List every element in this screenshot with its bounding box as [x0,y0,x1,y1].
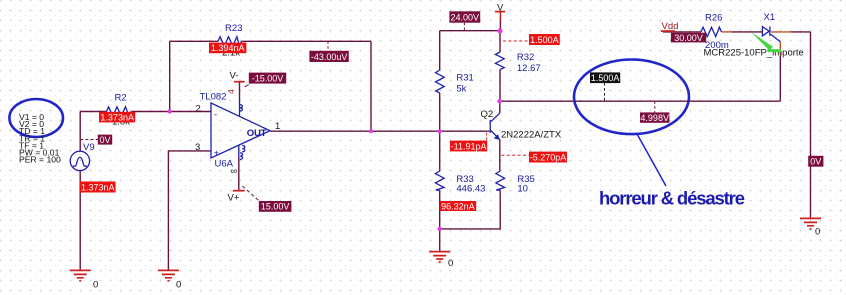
svg-text:3: 3 [195,142,200,153]
svg-text:4: 4 [226,89,236,94]
svg-text:Vdd: Vdd [662,21,679,32]
dashed connector -43.00uV [327,41,329,51]
ground G4 [800,218,821,228]
annotation leader line [637,133,667,186]
label box -11.91pA [450,141,487,152]
wire op-amp output to Q2 base [271,130,490,132]
svg-text:446.43: 446.43 [456,183,485,194]
svg-text:-11.91pA: -11.91pA [451,141,487,151]
svg-text:R26: R26 [705,12,722,23]
label box 1.500A red [529,34,560,45]
wire top feedback horizontal [170,40,371,42]
svg-text:15.00V: 15.00V [261,202,290,212]
wire op-amp V+ power stub [238,157,240,190]
wire input horizontal to R2 [80,111,211,113]
SCR X1 [762,27,780,42]
svg-text:4.998V: 4.998V [640,113,669,123]
dashed connector 24.00V [463,23,465,31]
svg-text:V-: V- [230,71,239,82]
wire R26 to X1 anode [722,31,733,33]
wire pin3 to ground [168,151,211,270]
wire emitter / R35 column [440,140,501,229]
svg-text:Q2: Q2 [481,109,494,120]
svg-text:MCR225-10FP_importe: MCR225-10FP_importe [704,47,804,58]
annotation ellipse right [574,60,689,135]
wire V node horizontal [440,30,500,32]
svg-text:PER = 100: PER = 100 [19,155,61,165]
wire op-amp V- power stub [239,82,241,99]
resistor R35 [496,171,505,190]
svg-text:1.500A: 1.500A [530,35,559,45]
resistor R33 [435,171,444,190]
dashed connector -5.270pA [501,154,529,156]
svg-text:30.00V: 30.00V [674,33,703,43]
junction node feedback/output [369,129,373,133]
svg-text:R23: R23 [225,23,242,34]
svg-text:R2: R2 [115,93,127,104]
resistor R23 [218,37,242,46]
annotation ellipse left [9,99,63,137]
svg-text:0: 0 [815,227,820,238]
wire V9 bottom lead to ground [79,171,81,270]
label box -5.270pA [529,152,567,163]
svg-text:1: 1 [275,121,280,132]
ground G3 [429,252,450,262]
svg-text:12.67: 12.67 [517,63,541,74]
junction node collector [497,99,501,103]
svg-text:96.32nA: 96.32nA [441,201,475,211]
svg-text:0: 0 [448,258,453,269]
junction node emitter bottom [438,227,442,231]
wire right column to ground [810,32,812,218]
label box -43.00uV [309,51,348,62]
wire collector to SCR gate [500,100,781,102]
label box 15.00V [259,201,292,212]
svg-text:1.373nA: 1.373nA [81,182,115,192]
wire SCR gate vertical [779,42,781,56]
label box 4.998V [640,112,669,122]
pin squiggle marks [240,105,243,112]
svg-text:X1: X1 [764,12,776,23]
resistor R32 [495,52,504,70]
resistor R26 [701,27,722,36]
svg-text:2N2222A/ZTX: 2N2222A/ZTX [501,130,562,141]
label box -15.00V [249,73,286,84]
dashed connector 1.500A red [503,40,529,42]
svg-text:R31: R31 [456,73,473,84]
svg-text:-: - [214,110,217,121]
label box 1.394nA [209,43,246,54]
svg-text:∞: ∞ [231,166,238,177]
wire X1 cathode to right column [771,31,791,33]
svg-text:0: 0 [93,280,98,291]
ground G1 [70,270,91,280]
wire R31 column [439,31,441,251]
ground G2 [158,270,179,280]
svg-text:-5.270pA: -5.270pA [530,152,567,162]
label box 24.00V [449,11,480,22]
label box 0V left [98,135,112,145]
label box 1.500A black [590,72,620,83]
svg-text:-43.00uV: -43.00uV [311,52,348,62]
wire R32 column [499,31,501,114]
transistor Q2 [489,120,491,133]
svg-text:V9: V9 [83,142,95,153]
dashed connector -11.91pA [486,133,488,141]
V+ bar [233,190,245,192]
green arrow annotation [751,32,773,51]
junction node op-amp input [168,109,172,113]
resistor R2 [107,107,132,116]
svg-text:OUT: OUT [247,128,267,139]
label box 1.373nA (R2) [99,112,135,123]
wire Vdd to R26 [663,31,701,33]
label box 0V right [808,156,823,167]
svg-text:1.373nA: 1.373nA [100,112,134,122]
svg-text:0V: 0V [99,135,110,145]
svg-text:1.500A: 1.500A [591,73,620,83]
svg-text:5k: 5k [456,84,466,95]
dashed connector -15.00V [245,85,249,87]
source parameter text [19,112,61,165]
wire feedback vertical left [169,41,171,111]
voltage source V9 [70,151,89,170]
svg-text:horreur & désastre: horreur & désastre [599,188,745,209]
label box 1.373nA (source) [80,182,116,193]
svg-text:+: + [214,148,220,159]
resistor R31 [436,70,445,93]
svg-text:-15.00V: -15.00V [252,74,284,84]
op-amp U6A [211,103,270,158]
svg-text:0: 0 [176,280,181,291]
svg-text:R32: R32 [517,52,534,63]
svg-text:TL082: TL082 [200,92,227,103]
label box 96.32nA [440,201,477,211]
wire V top stub [499,12,501,21]
dashed connector 0V left [80,139,98,141]
junction node base/divider [438,129,442,133]
op-amp power pin stubs [238,99,241,157]
svg-text:V+: V+ [228,193,240,204]
svg-text:1.394nA: 1.394nA [211,43,245,53]
dashed connector 15.00V [242,186,259,201]
V- bar [234,81,245,83]
svg-text:10: 10 [517,183,528,194]
dashed connector 4.998V [654,101,656,112]
wire feedback vertical right [370,41,372,131]
junction node V rail [498,28,503,33]
svg-text:0V: 0V [810,157,821,167]
svg-text:2: 2 [196,104,201,115]
label box 30.00V [671,33,706,43]
dashed connector 1.500A black [604,83,606,101]
svg-text:24.00V: 24.00V [451,13,480,23]
wire V9 top lead [79,112,81,152]
